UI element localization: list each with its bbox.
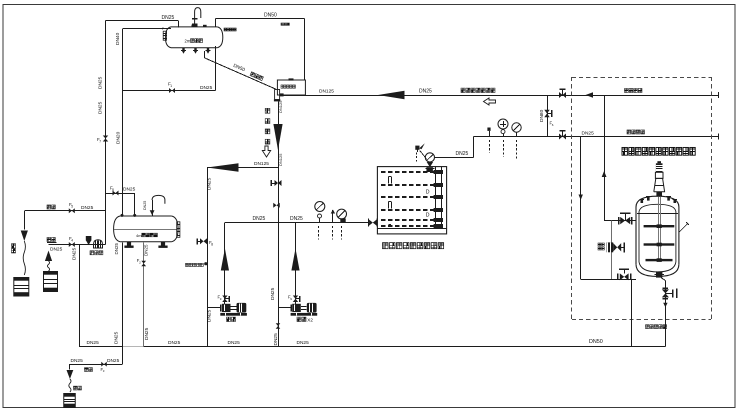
svg-text:DN25: DN25 xyxy=(206,177,212,190)
svg-text:5: 5 xyxy=(71,204,73,208)
svg-text:DN25: DN25 xyxy=(143,201,147,210)
svg-text:DN25: DN25 xyxy=(144,327,150,340)
svg-text:8: 8 xyxy=(211,242,213,246)
svg-text:D: D xyxy=(426,190,430,196)
svg-text:DN25: DN25 xyxy=(253,216,266,222)
svg-text:DN25: DN25 xyxy=(71,358,84,364)
svg-text:DN25: DN25 xyxy=(144,244,149,256)
svg-text:DN125: DN125 xyxy=(278,100,283,113)
svg-text:DN40: DN40 xyxy=(115,32,121,45)
svg-text:DN25: DN25 xyxy=(162,15,175,21)
svg-text:6: 6 xyxy=(112,188,114,192)
svg-text:DN25: DN25 xyxy=(270,287,276,300)
svg-text:DN50: DN50 xyxy=(264,13,277,19)
svg-text:DN80: DN80 xyxy=(539,109,545,122)
svg-text:F: F xyxy=(162,27,164,31)
svg-text:DN25: DN25 xyxy=(419,89,432,95)
svg-text:DN25: DN25 xyxy=(206,309,212,322)
svg-text:DN125: DN125 xyxy=(319,89,334,95)
svg-text:DN25: DN25 xyxy=(50,247,63,253)
svg-text:DN25: DN25 xyxy=(297,340,310,346)
svg-text:DN25: DN25 xyxy=(72,247,78,260)
svg-text:DN25: DN25 xyxy=(168,340,181,346)
svg-text:DN25: DN25 xyxy=(200,85,213,91)
svg-text:DN25: DN25 xyxy=(273,333,279,346)
svg-text:4m: 4m xyxy=(136,233,142,238)
svg-text:DN25: DN25 xyxy=(114,242,119,254)
svg-text:DN25: DN25 xyxy=(123,187,136,193)
svg-text:DN25: DN25 xyxy=(98,76,104,89)
svg-text:DN25: DN25 xyxy=(81,205,94,211)
svg-text:DN50: DN50 xyxy=(589,339,603,345)
svg-text:DN25: DN25 xyxy=(582,131,595,137)
svg-text:DN125: DN125 xyxy=(278,153,283,166)
svg-text:DN25: DN25 xyxy=(107,358,120,364)
svg-text:DN25: DN25 xyxy=(87,340,100,346)
svg-text:7: 7 xyxy=(99,139,101,143)
svg-text:1: 1 xyxy=(170,84,172,88)
svg-text:X2: X2 xyxy=(307,317,313,322)
svg-text:DN20: DN20 xyxy=(116,131,122,144)
svg-text:D: D xyxy=(426,168,430,174)
svg-text:D: D xyxy=(426,213,430,219)
svg-text:DN25: DN25 xyxy=(98,101,104,114)
svg-text:2m: 2m xyxy=(185,39,191,44)
svg-text:DN25: DN25 xyxy=(113,331,119,344)
svg-text:4: 4 xyxy=(71,238,73,242)
svg-text:DN25: DN25 xyxy=(290,216,303,222)
svg-text:DN25: DN25 xyxy=(228,340,241,346)
svg-text:DN125: DN125 xyxy=(254,161,269,167)
svg-text:DN25: DN25 xyxy=(456,151,469,157)
